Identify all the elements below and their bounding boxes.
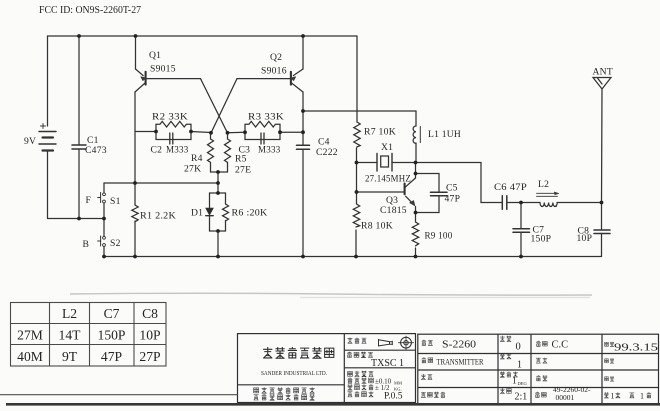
transistor Q2 bbox=[290, 72, 292, 85]
svg-text:C7: C7 bbox=[104, 306, 120, 321]
svg-text:14T: 14T bbox=[59, 328, 82, 343]
svg-text:1: 1 bbox=[512, 377, 517, 387]
node: antenna output bbox=[600, 201, 604, 205]
svg-text:150P: 150P bbox=[531, 234, 552, 245]
wire: battery bottom to switch column bbox=[48, 152, 105, 219]
svg-text:R5: R5 bbox=[235, 154, 247, 165]
wire: R6 top lead bbox=[225, 193, 227, 204]
checked: 覆核 bbox=[536, 358, 547, 364]
svg-text:40M: 40M bbox=[17, 349, 43, 364]
drawing no: 圖號 49-2260-02-00001 bbox=[535, 392, 546, 398]
wire: F line from S1 top to bias node bbox=[104, 182, 218, 184]
node: R2 left bbox=[154, 130, 158, 134]
wire: output row to C6 bbox=[481, 202, 502, 204]
node: R3 left bbox=[243, 130, 247, 134]
scale: 比例 2:1 bbox=[500, 388, 511, 394]
wire: junction to S2 bbox=[103, 219, 105, 237]
svg-text:C4: C4 bbox=[318, 137, 330, 148]
node: crystal left bbox=[355, 161, 359, 165]
node A bbox=[209, 131, 213, 135]
wire: Q1 collector rail down left side bbox=[134, 92, 136, 205]
wire: C8 bottom to ground end bbox=[601, 234, 603, 257]
svg-text:L2: L2 bbox=[62, 306, 77, 321]
svg-text:1: 1 bbox=[640, 392, 644, 401]
svg-text:SANDER INDUSTRIAL LTD.: SANDER INDUSTRIAL LTD. bbox=[261, 370, 327, 377]
svg-text:X1: X1 bbox=[381, 142, 393, 153]
bottom frame edge bbox=[6, 403, 660, 406]
resistor R6 (vertical zigzag) bbox=[223, 204, 229, 221]
wire: Q3 collector vertical bbox=[415, 163, 417, 179]
svg-text:27P: 27P bbox=[139, 349, 161, 364]
wire: bias stem to D1/R6 box bbox=[217, 183, 219, 193]
table frame bbox=[11, 303, 167, 367]
diode D1 bbox=[206, 208, 213, 215]
cross-coupling wire Q2 base to node A bbox=[211, 79, 237, 133]
svg-text:TXSC 1: TXSC 1 bbox=[371, 358, 404, 369]
wire: R5 top stub bbox=[227, 133, 229, 139]
company name (CJK simulated) bbox=[263, 347, 334, 358]
wire: crystal node to output corner bbox=[416, 163, 482, 203]
draft angle: 出模角 1 DEG bbox=[500, 372, 518, 378]
svg-text:9V: 9V bbox=[24, 136, 36, 147]
svg-text:10P: 10P bbox=[577, 233, 593, 244]
node: C5 bottom / emitter bbox=[414, 211, 418, 215]
wire: S1 top stub bbox=[103, 183, 105, 193]
note line 2 (CJK simulated) bbox=[254, 394, 315, 400]
wire: R3 right lead to Q2 collector line bbox=[280, 131, 303, 133]
date: 日期 99.3.15 bbox=[605, 342, 615, 347]
wire: C8 drop bbox=[601, 203, 603, 230]
svg-text:99.3.15: 99.3.15 bbox=[614, 342, 659, 354]
svg-text:R2 33K: R2 33K bbox=[152, 112, 188, 123]
wire: R7 bottom to crystal left node bbox=[356, 148, 358, 163]
note line 1 (CJK simulated) bbox=[254, 387, 315, 393]
wire: R8 bottom to ground bbox=[355, 230, 357, 257]
third angle projection symbol (cone) bbox=[379, 336, 414, 350]
transistor Q1 bbox=[145, 72, 147, 85]
parts value table bbox=[11, 303, 167, 367]
svg-text:R8 10K: R8 10K bbox=[361, 221, 393, 232]
switch S2 bbox=[103, 236, 106, 239]
wire: R9 bottom to ground bbox=[415, 248, 417, 257]
svg-text:S2: S2 bbox=[110, 238, 121, 249]
resistor R7 (vertical zigzag) bbox=[354, 122, 360, 147]
node: Q2 collector L1 branch bbox=[301, 109, 305, 113]
svg-text:C.C: C.C bbox=[552, 340, 569, 351]
wire: Q2 collector line down to C4 bbox=[302, 92, 304, 145]
capacitor C1 bbox=[72, 144, 86, 146]
svg-text:C6 47P: C6 47P bbox=[494, 182, 527, 193]
inductor L1 (vertical coil with core bar) bbox=[413, 126, 416, 143]
resistor R5 (vertical zigzag) bbox=[225, 139, 231, 167]
resistor R8 (vertical zigzag) bbox=[353, 204, 359, 227]
wire: top +V rail bbox=[48, 35, 358, 37]
svg-text:27M: 27M bbox=[17, 328, 43, 343]
wire: L2 to antenna node bbox=[557, 202, 602, 204]
wire: Q3 base lead bbox=[357, 191, 405, 193]
wire: R2 left lead bbox=[135, 131, 156, 133]
scan noise lines bbox=[70, 293, 592, 297]
node: Q3 base bbox=[355, 190, 359, 194]
finish: 表面處理 bbox=[421, 392, 445, 398]
capacitor C6 bbox=[501, 196, 503, 209]
wire: R6 bottom lead bbox=[225, 221, 227, 232]
svg-text:DEG: DEG bbox=[518, 381, 528, 386]
wire: C1 bottom bbox=[78, 150, 80, 219]
wire: C7 drop bbox=[520, 203, 522, 229]
wire: crystal left lead bbox=[357, 162, 378, 164]
wire: battery positive feed bbox=[47, 36, 49, 126]
wire: Q1 emitter feed from rail bbox=[135, 36, 137, 69]
wire: R7 feed from +V rail bbox=[356, 36, 358, 122]
wire: collector line of Q2 to L1 row bbox=[303, 110, 416, 112]
wire: R2 right lead to node A bbox=[191, 132, 211, 133]
node: D1/R6 bottom bbox=[216, 229, 220, 233]
node: C5 top branch bbox=[414, 172, 418, 176]
svg-text:M333: M333 bbox=[166, 145, 189, 156]
battery BT 9V bbox=[39, 131, 56, 133]
svg-text:R7 10K: R7 10K bbox=[364, 127, 396, 138]
wire: base feed down from crystal left node bbox=[356, 163, 358, 205]
sheet: 第1張 共1張 bbox=[604, 392, 651, 398]
date 2 bbox=[605, 358, 615, 363]
wire: C6 to C7 node bbox=[507, 202, 521, 204]
svg-text:D1: D1 bbox=[191, 208, 203, 219]
switch S1 bbox=[103, 193, 106, 196]
svg-text:TRANSMITTER: TRANSMITTER bbox=[437, 358, 484, 367]
svg-text:F: F bbox=[86, 195, 92, 206]
node: Q2 emitter rail bbox=[301, 34, 305, 38]
wire: D1 top lead bbox=[209, 193, 211, 208]
tolerance notes row (CJK simulated + latin) bbox=[348, 371, 374, 377]
node: R2 right bbox=[189, 130, 193, 134]
antenna ANT bbox=[593, 78, 611, 90]
svg-text:R4: R4 bbox=[191, 153, 203, 164]
svg-text:S1: S1 bbox=[110, 196, 121, 207]
node: D1/R6 top bbox=[216, 191, 220, 195]
ground rail nodes bbox=[102, 255, 106, 259]
svg-text:C8: C8 bbox=[142, 306, 158, 321]
wire: C4 bottom to ground rail bbox=[302, 150, 304, 257]
svg-text:C222: C222 bbox=[316, 147, 338, 158]
wire: D1/R6 box bottom edge bbox=[210, 230, 226, 232]
wire: L1 top drop bbox=[415, 111, 417, 126]
drawn by: 繪圖 C.C bbox=[536, 341, 547, 347]
svg-text:L2: L2 bbox=[538, 179, 549, 190]
svg-text:C2: C2 bbox=[151, 145, 163, 156]
wire: C7 node to L2 bbox=[521, 202, 540, 204]
node: F line x R1 rail bbox=[133, 181, 137, 185]
wire: L1 bottom to crystal node bbox=[415, 143, 417, 163]
node: R3 right bbox=[278, 130, 282, 134]
svg-text:S9015: S9015 bbox=[150, 64, 176, 75]
svg-text:Q1: Q1 bbox=[149, 50, 161, 61]
svg-text:L1 1UH: L1 1UH bbox=[428, 129, 461, 140]
wire: node B to R3 left bbox=[228, 131, 246, 134]
third angle projection symbol (target circle) bbox=[401, 337, 412, 348]
svg-text:47P: 47P bbox=[101, 349, 123, 364]
svg-text:0: 0 bbox=[516, 342, 521, 353]
quantity: 數量 1 bbox=[500, 353, 511, 359]
capacitor C7 bbox=[513, 228, 530, 230]
resistor R9 (vertical zigzag) bbox=[412, 222, 418, 246]
node: Q1 emitter rail bbox=[134, 34, 138, 38]
wire: antenna down lead bbox=[601, 89, 604, 203]
wire: C5 bottom branch bbox=[416, 197, 440, 213]
capacitor C4 bbox=[297, 144, 310, 146]
svg-text:2:1: 2:1 bbox=[515, 392, 528, 403]
wire: C1 top drop bbox=[78, 36, 80, 145]
svg-text:MM: MM bbox=[394, 381, 402, 386]
wire: D1/R6 box top edge bbox=[210, 192, 226, 194]
title row: 圖面 TRANSMITTER bbox=[422, 357, 433, 363]
svg-text:ANT: ANT bbox=[593, 67, 613, 78]
svg-text:R6 :20K: R6 :20K bbox=[232, 208, 268, 219]
resistor R3 with capacitor C3 (parallel box) bbox=[245, 121, 280, 132]
cross-coupling wire Q1 base to node B bbox=[201, 79, 228, 133]
wire: bias stem down to F line bbox=[217, 172, 219, 183]
material: 材料 bbox=[421, 374, 432, 380]
svg-text:C1815: C1815 bbox=[380, 205, 407, 216]
wire: Q3 emitter to R9 bbox=[415, 207, 417, 223]
svg-text:FCC ID: ON9S-2260T-27: FCC ID: ON9S-2260T-27 bbox=[39, 5, 141, 16]
svg-text:9T: 9T bbox=[62, 349, 78, 364]
resistor R4 (vertical zigzag) bbox=[208, 139, 214, 167]
svg-text:00001: 00001 bbox=[556, 393, 575, 402]
wire: bottom ground rail bbox=[104, 256, 602, 258]
node: crystal right bbox=[414, 161, 418, 165]
resistor R2 with capacitor C2 (parallel box) bbox=[156, 121, 191, 131]
node B bbox=[226, 131, 230, 135]
model row: 型號 S-2260 bbox=[422, 340, 433, 346]
wire: S1 to junction bbox=[103, 203, 105, 219]
revision: 修改 0 bbox=[500, 336, 511, 342]
inductor L2 (horizontal coil with core bars) bbox=[540, 203, 557, 207]
wire: D1 bottom lead bbox=[209, 216, 211, 231]
projection method label (CJK simulated) bbox=[348, 338, 367, 344]
wire: C5 top branch bbox=[416, 174, 440, 193]
svg-text:1: 1 bbox=[611, 392, 615, 401]
svg-text:S-2260: S-2260 bbox=[442, 339, 477, 351]
date 3 bbox=[605, 376, 615, 381]
capacitor C5 bbox=[431, 191, 448, 193]
node: C1 top rail bbox=[77, 34, 81, 38]
svg-text:Q2: Q2 bbox=[270, 52, 282, 63]
svg-text:1: 1 bbox=[517, 360, 522, 371]
wire: C7 bottom to ground bbox=[520, 233, 522, 257]
svg-text:27.145MHZ: 27.145MHZ bbox=[365, 174, 411, 185]
svg-text:P.0.5: P.0.5 bbox=[384, 392, 403, 402]
node: C7 top bbox=[519, 201, 523, 205]
wire: Q2 emitter feed from rail bbox=[302, 36, 304, 69]
svg-text:150P: 150P bbox=[98, 328, 126, 343]
svg-text:47P: 47P bbox=[445, 194, 461, 205]
svg-text:M333: M333 bbox=[258, 145, 281, 156]
svg-text:R9 100: R9 100 bbox=[425, 231, 453, 242]
capacitor C8 bbox=[594, 229, 610, 231]
node: F line bias stem bbox=[216, 181, 220, 185]
node: C1 bottom bbox=[77, 217, 81, 221]
svg-text:27E: 27E bbox=[235, 165, 251, 176]
sheet inner border line bbox=[0, 394, 238, 396]
resistor R1 (vertical zigzag) bbox=[132, 205, 138, 222]
title block frame right bbox=[418, 334, 659, 404]
wire: R4 top stub bbox=[210, 133, 212, 139]
wire: R4/R5 bottom join bar bbox=[211, 167, 228, 173]
file name label (CJK simulated) bbox=[347, 352, 373, 358]
wire: S2 bottom to ground rail bbox=[103, 247, 105, 257]
svg-text:C473: C473 bbox=[85, 145, 107, 156]
svg-text:R3 33K: R3 33K bbox=[248, 112, 284, 123]
svg-text:R1 2.2K: R1 2.2K bbox=[140, 211, 176, 222]
transistor Q3 bbox=[404, 184, 406, 195]
wire: D1/R6 stem to ground rail bbox=[217, 231, 219, 257]
svg-text:10P: 10P bbox=[139, 328, 161, 343]
svg-text:B: B bbox=[83, 239, 90, 250]
wire: crystal right lead bbox=[392, 162, 416, 164]
approved: 審批 bbox=[536, 375, 547, 381]
title block frame left bbox=[238, 334, 416, 403]
svg-text:27K: 27K bbox=[184, 164, 201, 175]
wire: R1 bottom to ground bbox=[134, 221, 136, 257]
node: bias stem R4/R5 bbox=[216, 170, 220, 174]
node: Q2 collector R3 branch bbox=[301, 130, 305, 134]
node: battery/switch junction bbox=[102, 217, 106, 221]
crystal X1 27.145MHZ bbox=[376, 154, 378, 172]
svg-text:C5: C5 bbox=[446, 183, 458, 194]
svg-text:S9016: S9016 bbox=[261, 66, 287, 77]
